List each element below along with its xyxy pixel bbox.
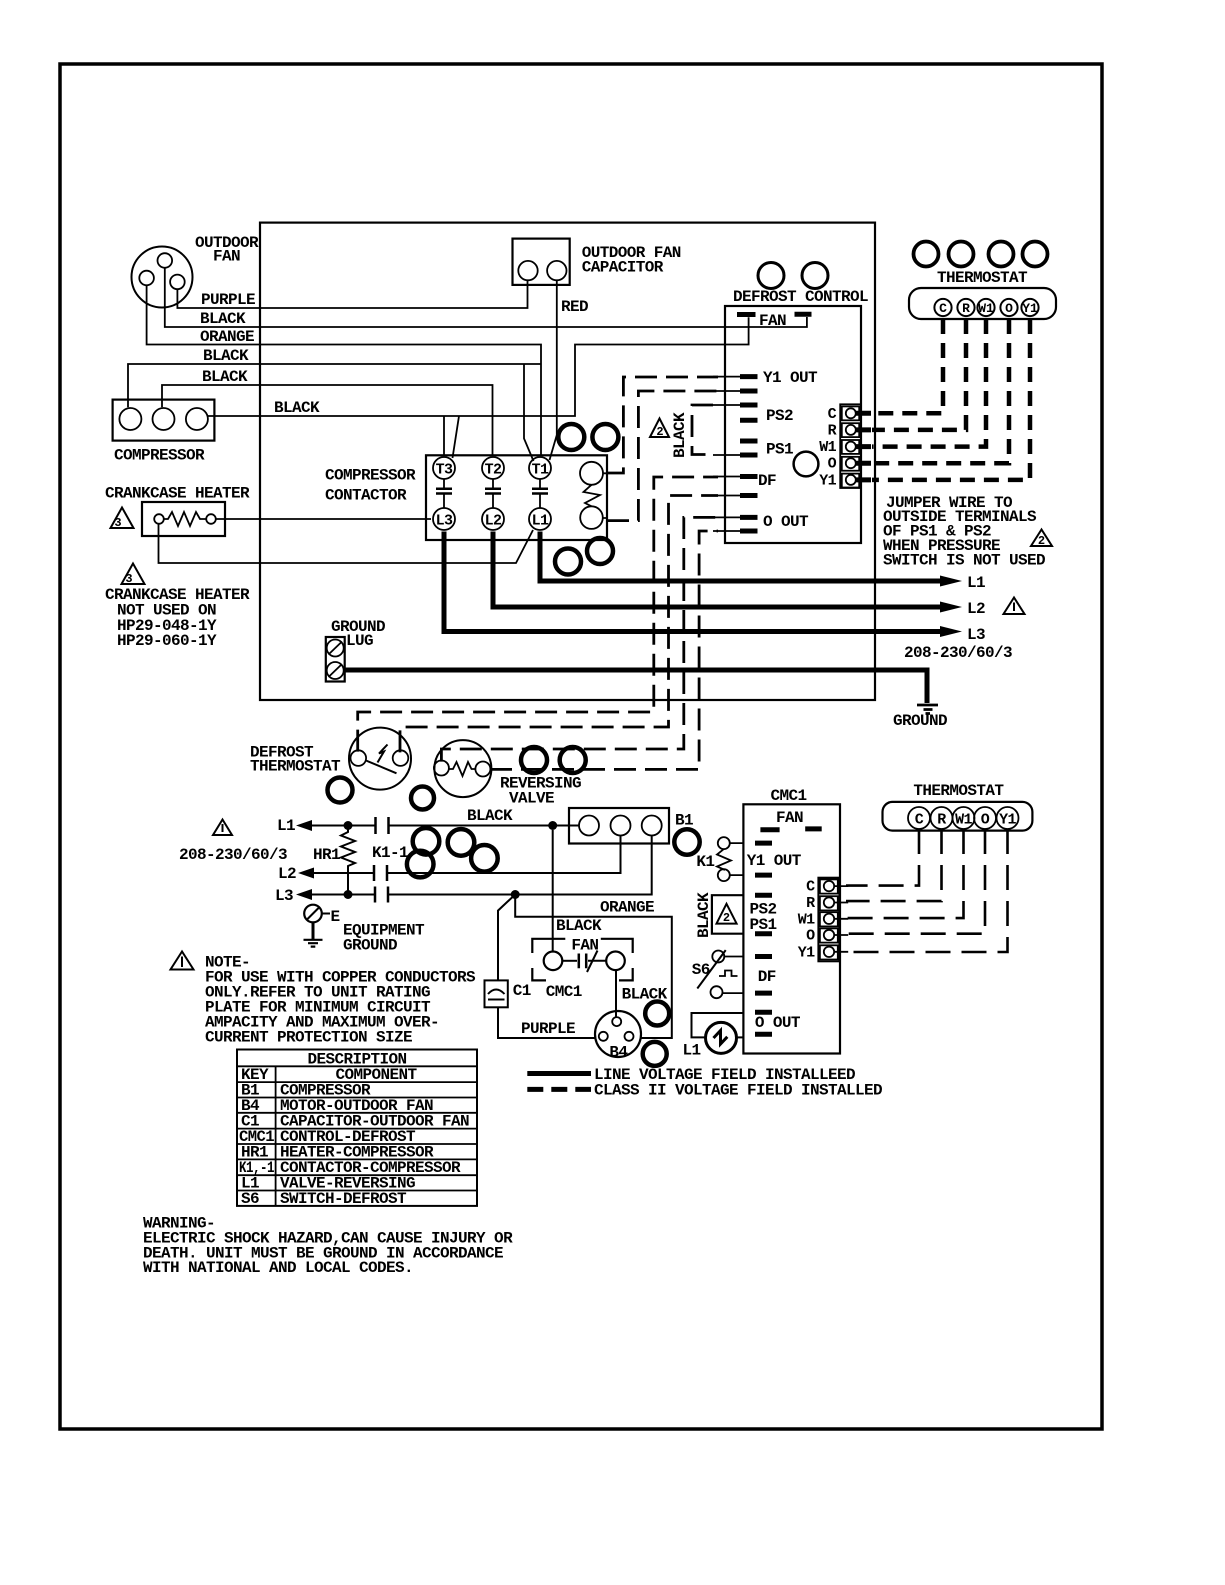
svg-text:T2: T2: [485, 461, 502, 478]
connector circle: [645, 1002, 669, 1026]
svg-text:CONTACTOR: CONTACTOR: [325, 487, 407, 505]
power wire L2: [493, 532, 962, 613]
wire dashed reversing valve left to O OUT: [441, 517, 718, 761]
wire dashed thermostat R lower: [846, 829, 942, 901]
resistor HR1 heater-compressor: [341, 826, 355, 895]
warning triangle 3: [122, 564, 145, 587]
jumper wire PS2 to PS1 dashed: [692, 405, 713, 455]
compressor terminal box: [113, 400, 215, 441]
pin lead stubs: [713, 377, 740, 531]
svg-text:O: O: [828, 456, 837, 473]
svg-text:VALVE: VALVE: [509, 790, 554, 808]
svg-text:208-230/60/3: 208-230/60/3: [904, 644, 1012, 662]
connector circle: [411, 787, 434, 810]
defrost thermostat: [349, 728, 411, 790]
svg-text:FAN: FAN: [759, 312, 786, 330]
svg-text:L1: L1: [277, 817, 295, 835]
wire dashed thermostat C lower: [846, 829, 919, 886]
svg-text:2: 2: [656, 425, 663, 439]
svg-text:L2: L2: [485, 512, 502, 529]
defrost control board box: [725, 306, 861, 543]
wire ORANGE L3 to fan motor B4: [515, 897, 672, 1038]
svg-text:CRANKCASE HEATER: CRANKCASE HEATER: [105, 485, 250, 503]
svg-text:FAN: FAN: [213, 248, 240, 266]
svg-text:CAPACITOR: CAPACITOR: [582, 259, 664, 277]
wire L1 lower line: [310, 825, 579, 827]
svg-text:C: C: [828, 406, 837, 423]
label COMPRESSOR CONTACTOR: [325, 467, 416, 505]
svg-text:C1: C1: [513, 982, 531, 1000]
CMC1 left pin marks: [755, 843, 772, 1034]
svg-text:BLACK: BLACK: [202, 368, 248, 386]
svg-text:O OUT: O OUT: [763, 513, 809, 531]
jumper bracket PS2-PS1: [712, 895, 744, 934]
svg-text:BLACK: BLACK: [467, 807, 513, 825]
svg-text:GROUND: GROUND: [893, 712, 947, 730]
defrost board mounting circle: [794, 452, 819, 477]
label EQUIPMENT GROUND: [343, 922, 425, 955]
warning text: [143, 1215, 513, 1278]
wire dashed reversing valve right: [490, 531, 718, 769]
CMC1 terminal strip: [818, 878, 848, 962]
label OUTDOOR FAN CAPACITOR: [582, 244, 681, 277]
wire fan contact to B4: [615, 970, 617, 1017]
svg-text:PURPLE: PURPLE: [201, 291, 255, 309]
wire dashed coil top to defrost Y1 OUT: [607, 377, 718, 473]
connector circle: [558, 424, 584, 450]
svg-text:GROUND: GROUND: [343, 937, 397, 955]
connector circle: [471, 845, 498, 872]
compressor B1 terminal box: [569, 808, 669, 844]
contact K1-1 L1: [376, 817, 389, 834]
svg-text:K1-1: K1-1: [372, 844, 408, 862]
svg-text:HP29-060-1Y: HP29-060-1Y: [117, 632, 217, 650]
svg-text:CLASS II VOLTAGE FIELD INSTALL: CLASS II VOLTAGE FIELD INSTALLED: [594, 1082, 882, 1100]
wire dashed coil bottom to defrost terminal: [607, 391, 718, 521]
svg-text:3: 3: [125, 572, 132, 586]
ground lug: [326, 637, 345, 682]
node L2 lower: [278, 865, 314, 883]
main unit enclosure box: [260, 223, 875, 700]
wire BLACK fan to defrost FAN right terminal: [165, 268, 807, 327]
contactor terminal L3: [433, 508, 455, 530]
svg-text:B4: B4: [609, 1043, 628, 1061]
connector circle: [448, 829, 475, 856]
thermostat connector circles: [914, 242, 1048, 267]
contactor K1 box: [426, 455, 607, 540]
connector circle: [555, 549, 581, 575]
reversing valve solenoid: [434, 740, 492, 797]
svg-text:R: R: [962, 301, 970, 316]
thermostat lower terminal block: [883, 802, 1033, 831]
contactor terminal L2: [482, 508, 504, 530]
svg-text:Y1: Y1: [798, 944, 815, 961]
svg-text:BLACK: BLACK: [274, 399, 320, 417]
svg-text:DEFROST CONTROL: DEFROST CONTROL: [733, 288, 868, 306]
CMC1 fan marks: [760, 826, 821, 832]
CMC1 fan contact: [544, 951, 625, 973]
svg-text:COMPRESSOR: COMPRESSOR: [325, 467, 416, 485]
strip pin labels: [798, 879, 815, 962]
svg-text:O: O: [981, 811, 990, 828]
warning triangle 2: [1031, 530, 1052, 549]
warning triangle 1: [1004, 598, 1025, 615]
legend line voltage: [527, 1066, 855, 1084]
svg-text:WITH NATIONAL AND LOCAL CODES.: WITH NATIONAL AND LOCAL CODES.: [143, 1259, 413, 1277]
motor B4 outdoor fan: [595, 1011, 641, 1057]
svg-text:PS1: PS1: [750, 916, 777, 934]
svg-text:L1: L1: [683, 1042, 701, 1060]
wire dashed thermostat Y1 lower: [846, 829, 1008, 952]
svg-text:BLACK: BLACK: [200, 310, 246, 328]
wire L3 to capacitor C1: [498, 895, 515, 981]
wire dashed thermostat O lower: [846, 829, 985, 934]
junction: [548, 821, 557, 830]
connector circle: [802, 263, 828, 289]
svg-text:BLACK: BLACK: [695, 892, 713, 938]
wire L2 lower line: [312, 836, 621, 874]
wire dashed defrost thermostat right: [400, 496, 718, 753]
svg-text:K1: K1: [696, 853, 714, 871]
svg-text:B1: B1: [675, 812, 693, 830]
warning triangle 2: [717, 904, 737, 925]
warning triangle 1: [171, 952, 194, 970]
svg-text:ORANGE: ORANGE: [600, 899, 654, 917]
svg-text:DF: DF: [758, 968, 776, 986]
svg-text:CURRENT PROTECTION SIZE: CURRENT PROTECTION SIZE: [205, 1029, 412, 1047]
control CMC1 defrost board box: [743, 804, 840, 1053]
connector circle: [592, 424, 618, 450]
label OUTDOOR FAN: [195, 234, 259, 266]
svg-text:THERMOSTAT: THERMOSTAT: [937, 269, 1028, 287]
svg-text:C: C: [806, 879, 815, 896]
svg-text:208-230/60/3: 208-230/60/3: [179, 846, 287, 864]
switch S6 defrost: [697, 950, 743, 998]
capacitor C1: [485, 980, 508, 1007]
svg-text:T3: T3: [436, 461, 453, 478]
svg-text:T1: T1: [532, 461, 549, 478]
svg-text:O OUT: O OUT: [755, 1014, 801, 1032]
defrost board left pin marks: [740, 377, 758, 531]
connector circle: [560, 747, 586, 773]
svg-text:THERMOSTAT: THERMOSTAT: [250, 758, 341, 776]
svg-text:2: 2: [723, 911, 730, 925]
wire ORANGE fan to contactor T1: [147, 285, 541, 455]
wire dashed thermostat O: [872, 319, 1009, 463]
svg-text:BLACK: BLACK: [671, 412, 689, 458]
svg-text:CMC1: CMC1: [546, 983, 582, 1001]
wire RED capacitor to contactor T1: [550, 281, 557, 461]
junction: [511, 890, 520, 899]
label REVERSING VALVE: [500, 775, 581, 808]
contactor coil K1: [580, 462, 607, 529]
connector circle: [758, 263, 784, 289]
svg-text:R: R: [937, 811, 946, 828]
svg-text:BLACK: BLACK: [556, 917, 602, 935]
svg-text:W1: W1: [978, 301, 994, 316]
svg-text:L3: L3: [436, 512, 453, 529]
power wire L1: [540, 532, 962, 587]
wire dashed defrost thermostat left to DF: [358, 477, 718, 752]
svg-text:HR1: HR1: [313, 846, 340, 864]
svg-text:R: R: [828, 422, 837, 439]
note CRANKCASE HEATER NOT USED ON: [105, 586, 250, 650]
outdoor fan motor: [132, 247, 193, 308]
contact K1-1 L2: [374, 865, 387, 881]
svg-text:L1: L1: [967, 574, 985, 592]
svg-text:ORANGE: ORANGE: [200, 328, 254, 346]
wire BLACK L1 to CMC1 fan contact: [552, 830, 554, 952]
warning triangle 1: [213, 820, 232, 836]
connector circle: [643, 1042, 667, 1066]
strip right stub marks: [856, 413, 871, 480]
svg-text:C: C: [939, 301, 947, 316]
wire ground lug to ground: [345, 670, 927, 703]
connector circle: [587, 538, 613, 564]
connector circle: [521, 747, 547, 773]
connector circle: [413, 828, 440, 855]
svg-text:PURPLE: PURPLE: [521, 1020, 575, 1038]
wire dashed thermostat C: [872, 319, 943, 413]
svg-text:L3: L3: [967, 626, 985, 644]
svg-text:PS1: PS1: [766, 441, 793, 459]
border frame: [60, 64, 1102, 1429]
svg-text:L1: L1: [532, 512, 549, 529]
svg-text:RED: RED: [561, 298, 588, 316]
valve L1 reversing solenoid: [692, 1013, 744, 1053]
svg-text:S6: S6: [692, 961, 710, 979]
svg-text:BLACK: BLACK: [203, 347, 249, 365]
wire BLACK compressor pin1 to contactor T1: [128, 364, 541, 461]
svg-text:Y1: Y1: [999, 811, 1016, 828]
dashed bracket fan contact: [532, 939, 632, 981]
relay coil K1: [717, 837, 743, 881]
node L1 lower: [277, 817, 312, 835]
svg-text:FAN: FAN: [571, 937, 598, 955]
label DEFROST THERMOSTAT: [250, 744, 341, 776]
note copper conductors: [205, 954, 476, 1047]
power wire L3: [444, 532, 962, 638]
svg-text:3: 3: [114, 516, 121, 530]
warning triangle 2: [650, 419, 669, 440]
heater HR1 crankcase heater element: [142, 502, 225, 536]
wire PURPLE fan to capacitor: [177, 281, 527, 309]
connector circle: [674, 829, 699, 854]
defrost terminal strip: [840, 404, 861, 488]
svg-text:L2: L2: [967, 600, 985, 618]
contactor terminal T3: [433, 457, 455, 479]
key table: [237, 1050, 477, 1206]
junction: [344, 890, 353, 899]
contact T3-L3: [436, 479, 452, 508]
svg-text:R: R: [806, 895, 815, 912]
contact T2-L2: [485, 479, 501, 508]
svg-text:O: O: [806, 928, 815, 945]
wire BLACK compressor pin3 to contactor T3 and defrost FAN left terminal: [207, 317, 749, 458]
svg-text:SWITCH-DEFROST: SWITCH-DEFROST: [280, 1190, 407, 1208]
svg-text:S6: S6: [241, 1190, 259, 1208]
svg-text:L3: L3: [275, 887, 293, 905]
svg-text:PS2: PS2: [766, 407, 793, 425]
thermostat terminal block: [909, 288, 1056, 319]
contactor terminal T2: [482, 457, 504, 479]
wire L3 lower line: [310, 836, 652, 895]
defrost FAN terminal marks: [737, 312, 812, 330]
svg-text:W1: W1: [955, 811, 972, 828]
capacitor C1 outdoor fan capacitor box: [513, 239, 570, 285]
node L3 lower: [275, 887, 312, 905]
svg-text:SWITCH IS NOT USED: SWITCH IS NOT USED: [883, 552, 1045, 570]
svg-text:2: 2: [1038, 534, 1045, 548]
strip pin labels C R W1 O Y1: [819, 406, 836, 490]
contactor terminal L1: [529, 508, 551, 530]
svg-text:W1: W1: [819, 439, 836, 456]
svg-text:L2: L2: [278, 865, 296, 883]
svg-text:W1: W1: [798, 911, 815, 928]
wire dashed thermostat Y1: [872, 319, 1030, 480]
label GROUND LUG: [331, 618, 385, 650]
svg-text:Y1 OUT: Y1 OUT: [763, 369, 818, 387]
svg-text:Y1: Y1: [1022, 301, 1038, 316]
warning triangle 3: [111, 508, 134, 531]
svg-text:LUG: LUG: [346, 632, 373, 650]
legend class II voltage: [527, 1082, 882, 1100]
svg-text:BLACK: BLACK: [622, 986, 668, 1004]
wire dashed thermostat R: [872, 319, 966, 430]
wire PURPLE C1 to fan motor B4: [498, 1007, 595, 1038]
wire dashed thermostat W1 lower: [846, 829, 964, 918]
svg-text:Y1 OUT: Y1 OUT: [747, 852, 802, 870]
svg-text:FAN: FAN: [776, 809, 803, 827]
svg-text:THERMOSTAT: THERMOSTAT: [913, 782, 1004, 800]
svg-text:C: C: [915, 811, 924, 828]
svg-text:O: O: [1005, 301, 1013, 316]
svg-text:DF: DF: [758, 472, 776, 490]
connector circle: [328, 778, 353, 803]
svg-text:E: E: [331, 908, 340, 926]
ground symbol: [917, 705, 938, 714]
svg-text:CMC1: CMC1: [771, 787, 807, 805]
wire BLACK compressor pin2 to contactor T2: [162, 385, 493, 456]
junction: [344, 821, 353, 830]
wire heater to contactor L1: [159, 524, 534, 563]
svg-text:Y1: Y1: [819, 472, 836, 489]
contact K1-1 L3: [375, 887, 388, 903]
contact T1-L1: [532, 479, 548, 508]
contactor terminal T1: [529, 457, 551, 479]
table text: [239, 1051, 469, 1209]
svg-text:COMPRESSOR: COMPRESSOR: [114, 447, 205, 465]
connector circle: [407, 851, 434, 878]
equipment ground screw: [304, 905, 340, 947]
note JUMPER WIRE: [883, 494, 1045, 570]
wire dashed thermostat W1: [872, 319, 986, 447]
wire heater to contactor L3: [216, 518, 431, 520]
